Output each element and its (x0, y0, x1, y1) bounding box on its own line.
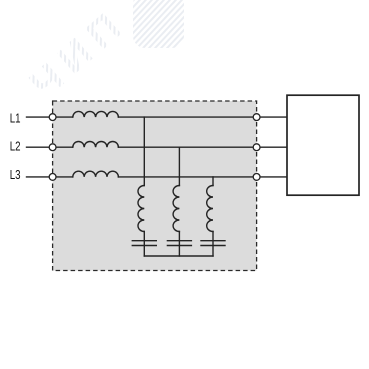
svg-text:ЧИП: ЧИП (22, 0, 136, 107)
svg-text:L2: L2 (10, 138, 21, 153)
svg-text:L1: L1 (10, 110, 21, 125)
svg-text:L3: L3 (10, 167, 21, 182)
